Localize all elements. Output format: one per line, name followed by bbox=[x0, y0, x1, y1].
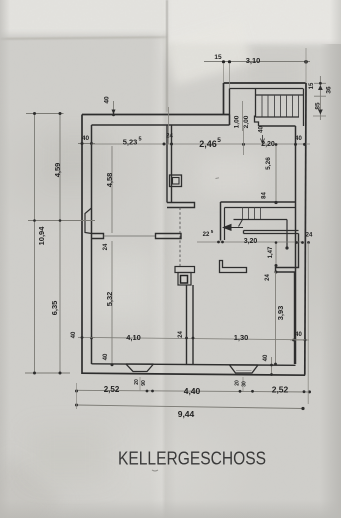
dashed flue line bbox=[179, 208, 181, 267]
wall right outer bbox=[305, 83, 306, 375]
svg-text:40: 40 bbox=[295, 332, 302, 338]
svg-text:1,30: 1,30 bbox=[234, 333, 249, 342]
dim 40 left wall bbox=[78, 143, 95, 145]
svg-text:9,44: 9,44 bbox=[178, 409, 195, 419]
interior wall mid bar bbox=[156, 234, 182, 239]
window left wall bbox=[85, 208, 92, 234]
svg-text:15: 15 bbox=[309, 82, 315, 89]
svg-text:2,00: 2,00 bbox=[243, 115, 250, 128]
dim 40 right wall bottom bbox=[290, 339, 309, 341]
svg-text:4,10: 4,10 bbox=[126, 333, 141, 342]
extension line x243.5 bbox=[243, 128, 245, 155]
chimney C2 inner bbox=[181, 276, 188, 284]
wing door centre line bbox=[242, 101, 244, 131]
svg-text:20: 20 bbox=[235, 380, 241, 386]
wall bottom inner bbox=[92, 364, 296, 366]
interior stair treads bbox=[243, 208, 261, 220]
exterior stair landing line bbox=[256, 94, 304, 96]
window bottom A bbox=[126, 364, 154, 372]
stair direction arrow bbox=[222, 224, 232, 231]
svg-text:5: 5 bbox=[217, 137, 221, 144]
wall left outer bbox=[81, 115, 83, 375]
dim 1,47 vertical bbox=[275, 243, 277, 266]
wing right wall inner bbox=[303, 89, 305, 127]
svg-text:30: 30 bbox=[242, 381, 248, 387]
interior wall mid-left stub bbox=[92, 234, 104, 239]
svg-text:40: 40 bbox=[103, 353, 109, 360]
interior stair left edge bbox=[220, 202, 222, 241]
svg-text:2,52: 2,52 bbox=[272, 385, 289, 395]
svg-text:4,59: 4,59 bbox=[53, 163, 62, 178]
dimension line left inner bbox=[59, 114, 61, 374]
pencil dash hall bbox=[216, 177, 220, 180]
svg-text:2,20: 2,20 bbox=[261, 141, 275, 148]
svg-text:4,40: 4,40 bbox=[184, 386, 201, 396]
svg-text:3,93: 3,93 bbox=[276, 306, 285, 321]
interior stair mid line bbox=[234, 219, 288, 221]
svg-text:10,94: 10,94 bbox=[37, 226, 46, 246]
dimension line left outer bbox=[34, 114, 36, 374]
chimney C2 cap bbox=[175, 267, 195, 273]
wall left inner bbox=[91, 125, 93, 364]
dim line room2 vertical bbox=[111, 241, 113, 365]
svg-text:5,26: 5,26 bbox=[265, 157, 272, 170]
svg-text:24: 24 bbox=[166, 134, 173, 140]
svg-text:5,32: 5,32 bbox=[105, 292, 114, 307]
svg-text:5: 5 bbox=[138, 137, 141, 143]
dim row y144 bbox=[92, 143, 311, 145]
svg-text:15: 15 bbox=[214, 54, 222, 61]
tick mid-left bbox=[28, 220, 95, 222]
chimney C1 outer bbox=[170, 175, 182, 187]
dim 3,10 top bbox=[204, 61, 310, 63]
svg-text:20: 20 bbox=[134, 379, 140, 385]
dim 3,93 vertical bbox=[275, 272, 277, 365]
wall top inner bbox=[92, 124, 230, 126]
wall top outer bbox=[82, 114, 230, 116]
pencil mark below title bbox=[152, 470, 158, 471]
wall right inner bbox=[295, 126, 297, 364]
bright diagonal tongue bbox=[163, 20, 252, 85]
dim 3,20 row bbox=[197, 241, 303, 243]
wall top end cap bbox=[229, 115, 231, 126]
svg-text:40: 40 bbox=[71, 331, 77, 338]
interior stair inner left edge bbox=[224, 208, 226, 241]
svg-text:3,10: 3,10 bbox=[246, 56, 261, 65]
svg-text:90: 90 bbox=[141, 380, 147, 386]
chimney C2 box bbox=[178, 273, 191, 286]
extension line x168.5 bbox=[168, 107, 170, 144]
tick top-left bbox=[26, 113, 64, 115]
dim 40 top-left arrow bbox=[113, 101, 115, 115]
white band top-left bbox=[0, 0, 170, 34]
vertical centre fold bbox=[150, 0, 176, 518]
dim row bottom 1 bbox=[77, 390, 310, 392]
dim 5,26 vertical bbox=[275, 145, 277, 203]
svg-text:40: 40 bbox=[259, 126, 265, 133]
wall stub bottom middle bracket bbox=[220, 261, 247, 273]
white band top-right bbox=[167, 0, 341, 44]
svg-text:24: 24 bbox=[306, 233, 313, 239]
extension verticals bottom bbox=[76, 383, 78, 409]
svg-text:40: 40 bbox=[263, 354, 269, 361]
wing top wall outer bbox=[224, 82, 306, 84]
bottom-left corner crease bbox=[0, 456, 64, 518]
svg-text:40: 40 bbox=[82, 135, 90, 142]
svg-text:22: 22 bbox=[203, 232, 210, 238]
svg-text:85: 85 bbox=[315, 102, 322, 110]
dim 40 window B bbox=[271, 357, 273, 375]
svg-text:6,35: 6,35 bbox=[50, 301, 59, 316]
dim line room1 vertical bbox=[111, 146, 113, 233]
svg-text:24: 24 bbox=[178, 331, 184, 338]
arrow 40 door bbox=[261, 135, 265, 144]
svg-text:1,47: 1,47 bbox=[268, 246, 274, 258]
wing left wall outer bbox=[223, 83, 225, 115]
svg-text:2,46: 2,46 bbox=[199, 139, 217, 149]
chimney C1 inner bbox=[173, 178, 180, 185]
tick bottom-left bbox=[25, 372, 70, 374]
interior stair right edge bbox=[286, 220, 288, 249]
svg-text:84: 84 bbox=[262, 192, 268, 199]
dim right side vertical bbox=[319, 76, 321, 120]
wing left wall inner bbox=[229, 89, 231, 126]
svg-text:1,00: 1,00 bbox=[234, 115, 241, 128]
svg-text:KELLERGESCHOSS: KELLERGESCHOSS bbox=[118, 449, 266, 469]
exterior stair bottom edge bbox=[256, 116, 300, 118]
svg-text:4,58: 4,58 bbox=[105, 173, 114, 188]
window bottom B bbox=[230, 365, 259, 373]
exterior stair left edge bbox=[255, 89, 257, 118]
svg-text:40: 40 bbox=[104, 96, 111, 104]
dim row bottom 2 bbox=[77, 405, 304, 409]
wing top wall inner bbox=[230, 88, 304, 90]
svg-text:2,52: 2,52 bbox=[104, 385, 120, 394]
dim row y338 bbox=[92, 338, 306, 340]
svg-text:5,23: 5,23 bbox=[123, 138, 138, 147]
exterior stair treads bbox=[262, 95, 299, 117]
interior stair lower bar bbox=[244, 231, 299, 234]
interior wall room divider upper bbox=[167, 125, 172, 203]
bottom vignette bbox=[0, 500, 341, 518]
wall stub right of stair bbox=[276, 234, 299, 365]
svg-text:36: 36 bbox=[326, 86, 333, 94]
crease vertical x167 bbox=[166, 0, 168, 112]
interior stair top line bbox=[221, 201, 296, 203]
svg-text:5: 5 bbox=[211, 229, 214, 234]
wall top inner right section bbox=[259, 125, 296, 127]
fold line under white band bbox=[0, 36, 167, 40]
wall bottom outer bbox=[82, 373, 305, 375]
interior wall stub L bbox=[167, 203, 195, 208]
svg-text:24: 24 bbox=[265, 274, 271, 281]
interior stair inner top line bbox=[225, 207, 296, 209]
svg-text:40: 40 bbox=[295, 136, 302, 142]
mottle blobs bbox=[50, 135, 100, 180]
interior wall lower vertical bbox=[187, 285, 194, 365]
right darker band bbox=[320, 44, 341, 518]
dim 40 bottom-left wall bbox=[78, 337, 95, 339]
svg-text:3,20: 3,20 bbox=[244, 238, 258, 245]
entry step jog bbox=[255, 116, 259, 127]
left edge vignette bbox=[0, 0, 10, 518]
door line mid bbox=[104, 235, 156, 237]
svg-text:24: 24 bbox=[103, 243, 109, 250]
